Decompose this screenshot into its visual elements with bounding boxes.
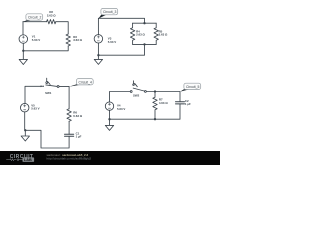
svg-text:4.63 Ω: 4.63 Ω xyxy=(159,101,168,105)
svg-text:2.63 Ω: 2.63 Ω xyxy=(47,13,56,17)
svg-text:SW1: SW1 xyxy=(45,91,52,95)
ground circuit2 xyxy=(19,51,27,65)
svg-text:LAB: LAB xyxy=(24,158,32,162)
node junction circuit3 source xyxy=(97,54,99,56)
footer bar xyxy=(0,151,220,165)
voltage source V3 xyxy=(94,35,103,44)
wire circuit2 top left to R2 xyxy=(23,21,47,23)
resistor R5 xyxy=(154,23,158,44)
wire circuit3 rail bottom xyxy=(133,43,157,45)
logo CircuitLab xyxy=(10,154,34,162)
switch SW2 xyxy=(130,91,132,93)
voltage source V4 xyxy=(105,102,113,110)
resistor R4 xyxy=(130,23,134,44)
callout Circuit_4 xyxy=(69,79,93,87)
svg-text:3.63 Ω: 3.63 Ω xyxy=(73,38,82,42)
svg-text:1 µF: 1 µF xyxy=(185,102,191,106)
capacitor C2 xyxy=(176,102,185,104)
node junction circuit4 xyxy=(24,129,26,131)
voltage source V1 xyxy=(19,35,28,44)
node junction circuit2 xyxy=(22,50,24,52)
wire C1 to bottom rail circuit4 xyxy=(25,130,69,148)
svg-text:SW2: SW2 xyxy=(133,94,140,98)
svg-text:Circuit_5: Circuit_5 xyxy=(186,85,199,89)
svg-text:2.63 Ω: 2.63 Ω xyxy=(136,33,145,37)
wire circuit5 top left xyxy=(110,92,131,102)
wire V3 top xyxy=(97,18,99,34)
wire circuit3 rail top xyxy=(133,22,157,24)
node junction circuit3 bottom xyxy=(143,43,145,45)
svg-text:5.63 V: 5.63 V xyxy=(32,38,40,42)
svg-text:Circuit_2: Circuit_2 xyxy=(28,16,41,20)
wire C2 to bottom rail circuit5 xyxy=(110,104,181,119)
wire SW2 to C2 corner xyxy=(146,92,180,102)
switch SW1 left terminal xyxy=(41,85,43,87)
wire R2 to corner xyxy=(56,22,68,34)
callout Circuit_2 xyxy=(23,14,43,22)
wire V3 bottom xyxy=(97,43,99,55)
node junction circuit5 R7 top xyxy=(154,90,156,92)
wire R3 to bottom rail circuit2 xyxy=(23,46,68,51)
svg-text:http://circuitlab.com/c/au89d8: http://circuitlab.com/c/au89d8gkj3 xyxy=(47,156,92,160)
node junction circuit5 R7 bottom xyxy=(154,118,156,120)
resistor R2 xyxy=(47,20,56,24)
ground circuit5 xyxy=(105,119,113,130)
wire circuit2 left top xyxy=(22,22,24,35)
ground circuit3 xyxy=(94,55,102,64)
switch SW1 xyxy=(57,86,59,88)
wire circuit3 return xyxy=(98,44,144,55)
resistor R6 xyxy=(67,109,71,121)
svg-text:1 µF: 1 µF xyxy=(76,135,82,139)
node junction circuit5 source xyxy=(108,118,110,120)
wire R6 to C1 xyxy=(68,121,70,134)
ground circuit4 xyxy=(21,130,29,141)
callout Circuit_3 xyxy=(98,8,117,18)
svg-text:Circuit_4: Circuit_4 xyxy=(79,80,92,84)
logo wire art xyxy=(6,159,22,161)
wire circuit4 top left xyxy=(25,86,41,103)
svg-text:5.63 V: 5.63 V xyxy=(31,107,39,111)
wire V1 to node xyxy=(22,43,24,51)
svg-text:6.63 Ω: 6.63 Ω xyxy=(73,114,82,118)
voltage source V5 xyxy=(20,103,29,112)
svg-text:Circuit_3: Circuit_3 xyxy=(103,10,116,14)
node junction circuit3 top xyxy=(143,22,145,24)
svg-text:3.63 Ω: 3.63 Ω xyxy=(159,33,168,37)
wire V5 bottom xyxy=(24,112,26,130)
svg-text:5.63 V: 5.63 V xyxy=(108,40,116,44)
resistor R7 xyxy=(153,92,157,120)
callout Circuit_5 xyxy=(180,83,201,91)
wire SW1 to node circuit4 xyxy=(59,86,69,108)
resistor R3 xyxy=(66,34,70,46)
wire circuit3 top xyxy=(98,18,144,23)
capacitor C1 xyxy=(65,134,74,136)
wire V4 bottom xyxy=(109,110,111,119)
svg-text:5.63 V: 5.63 V xyxy=(117,107,125,111)
